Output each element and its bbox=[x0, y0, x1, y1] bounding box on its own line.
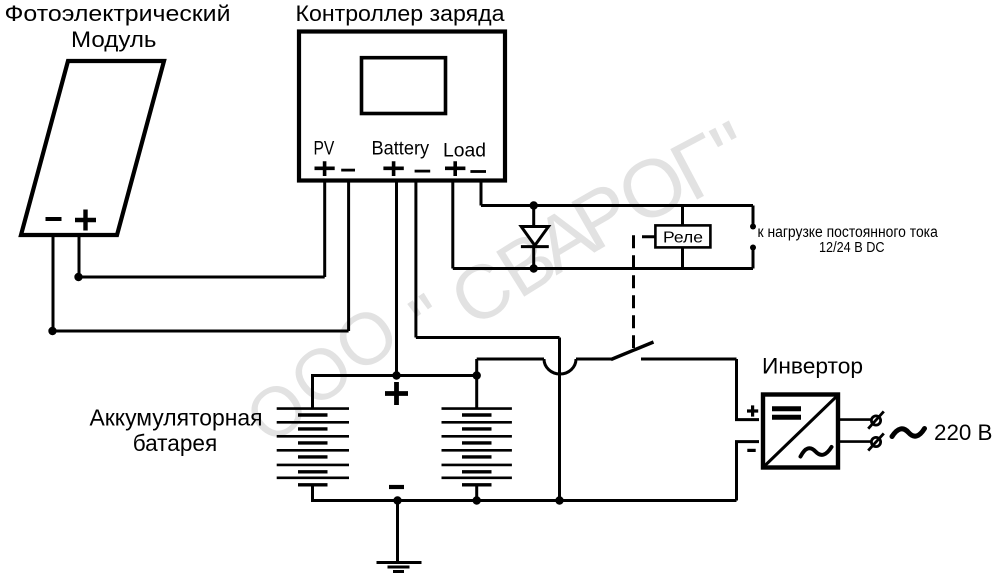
battery GB2 lead top bbox=[475, 376, 478, 409]
svg-text:Battery: Battery bbox=[372, 139, 430, 160]
wire: Battery- horizontal bbox=[416, 336, 560, 339]
wire: panel minus down bbox=[52, 237, 55, 331]
wire: PV+ vertical bbox=[323, 181, 326, 277]
junction dot battery2 top bbox=[473, 371, 481, 379]
phase terminal bottom bbox=[868, 433, 884, 450]
charge controller box U1 bbox=[299, 32, 505, 181]
phase terminal top bbox=[868, 411, 884, 428]
wire: relay branch bottom bbox=[681, 248, 684, 269]
junction dot panel plus bbox=[74, 273, 82, 281]
bottom rail bbox=[313, 499, 737, 501]
svg-text:Модуль: Модуль bbox=[71, 27, 157, 52]
junction dot battery minus link bbox=[555, 496, 563, 504]
Load plus terminal bbox=[445, 161, 465, 176]
wire: Battery- vertical bbox=[414, 181, 417, 338]
dashed relay control line bbox=[634, 237, 656, 348]
inverter box U2 bbox=[763, 395, 838, 468]
svg-text:Load: Load bbox=[443, 140, 486, 161]
svg-text:Аккумуляторная: Аккумуляторная bbox=[90, 405, 263, 431]
DC load terminal top bbox=[750, 206, 756, 230]
wire: inverter AC out bottom bbox=[840, 440, 871, 443]
battery GB1 plates bbox=[277, 409, 349, 485]
junction dot diode top bbox=[530, 201, 538, 209]
svg-text:к нагрузке постоянного тока: к нагрузке постоянного тока bbox=[758, 224, 939, 241]
svg-text:Реле: Реле bbox=[663, 230, 703, 247]
svg-text:батарея: батарея bbox=[133, 430, 218, 456]
panel plus terminal bbox=[75, 210, 96, 231]
svg-text:PV: PV bbox=[314, 139, 335, 160]
wire: relay branch top bbox=[681, 206, 684, 227]
battery GB2 plates bbox=[442, 409, 512, 485]
wire: inverter minus to bottom rail bbox=[737, 442, 760, 501]
junction dot battery2 bottom bbox=[473, 496, 481, 504]
inverter DC bars bbox=[772, 409, 801, 418]
svg-text:12/24 В DC: 12/24 В DC bbox=[819, 240, 885, 256]
PV plus terminal bbox=[315, 161, 335, 176]
diode VD1 bbox=[521, 206, 549, 269]
wire: Battery+ vertical to battery rail bbox=[395, 181, 398, 376]
Battery plus terminal bbox=[383, 161, 403, 176]
relay K1 box bbox=[655, 225, 710, 247]
Load minus terminal bbox=[470, 170, 486, 173]
battery GB2 bottom lead bbox=[475, 485, 478, 501]
svg-text:Фотоэлектрический: Фотоэлектрический bbox=[5, 1, 231, 26]
controller display bbox=[362, 58, 446, 114]
ground symbol bbox=[377, 563, 422, 572]
wire: battery+ up to switch line bbox=[475, 359, 478, 376]
junction dot diode bottom bbox=[530, 264, 538, 272]
switch S1 blade bbox=[611, 342, 654, 360]
wire: Battery- down to bottom rail bbox=[558, 338, 561, 501]
ground stem bbox=[396, 501, 399, 563]
battery + top rail bbox=[313, 376, 477, 409]
PV minus terminal bbox=[341, 169, 355, 172]
wire: minus horizontal to PV- bbox=[53, 330, 349, 333]
battery plus label bbox=[385, 382, 408, 405]
wire: Load- horizontal (DC load top line) bbox=[481, 204, 753, 207]
inverter AC sine bbox=[801, 447, 832, 457]
AC tilde symbol bbox=[892, 429, 925, 437]
solar panel PV1 bbox=[21, 61, 164, 235]
junction dot battery+ bbox=[392, 371, 400, 379]
wire: switch line middle segment bbox=[576, 358, 612, 361]
svg-text:Контроллер заряда: Контроллер заряда bbox=[296, 1, 506, 26]
wire: plus horizontal to PV+ bbox=[79, 276, 325, 279]
inverter diagonal bbox=[765, 396, 838, 466]
svg-text:Инвертор: Инвертор bbox=[762, 354, 863, 379]
inverter plus label bbox=[747, 405, 758, 416]
svg-text:220 В: 220 В bbox=[934, 420, 993, 445]
wire hop over battery- link bbox=[544, 359, 576, 374]
wire: panel plus down bbox=[78, 237, 81, 277]
inverter minus label bbox=[747, 449, 755, 452]
wire: Load+ horizontal (DC load bottom line) bbox=[453, 267, 753, 270]
battery GB1 bottom lead bbox=[311, 485, 314, 501]
DC load terminal bottom bbox=[750, 245, 756, 269]
wire: switch right segment bbox=[641, 358, 737, 361]
wire: inverter AC out top bbox=[840, 418, 871, 421]
battery minus label bbox=[389, 485, 404, 489]
junction dot ground bbox=[393, 496, 401, 504]
watermark ООО "СВАРОГ" bbox=[231, 103, 768, 458]
wire: Load+ vertical bbox=[451, 181, 454, 269]
Battery minus terminal bbox=[415, 170, 431, 173]
wire: PV- vertical bbox=[347, 181, 350, 331]
wire: Load- vertical bbox=[480, 181, 483, 206]
panel minus terminal bbox=[46, 217, 62, 221]
wire: switch line left segment bbox=[477, 358, 544, 361]
junction dot panel minus bbox=[48, 327, 56, 335]
wire: down to inverter plus bbox=[737, 359, 760, 420]
